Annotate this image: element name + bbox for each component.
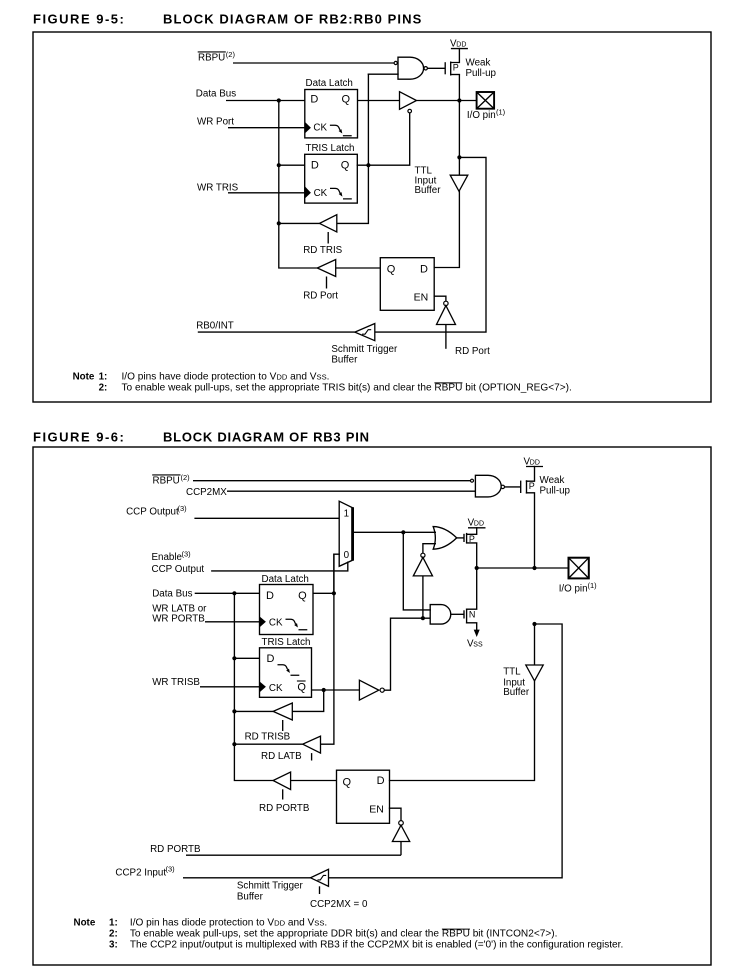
svg-text:RD LATB: RD LATB bbox=[261, 751, 302, 762]
svg-text:RD PORTB: RD PORTB bbox=[150, 844, 201, 855]
svg-text:D: D bbox=[310, 94, 318, 106]
svg-text:Buffer: Buffer bbox=[415, 185, 442, 196]
svg-text:DD: DD bbox=[530, 460, 540, 467]
svg-text:CK: CK bbox=[269, 617, 283, 628]
svg-text:Buffer: Buffer bbox=[237, 891, 264, 902]
svg-text:Data Bus: Data Bus bbox=[152, 589, 192, 600]
svg-text:Note: Note bbox=[73, 372, 95, 383]
svg-text:TRIS Latch: TRIS Latch bbox=[306, 143, 355, 154]
svg-text:Data Bus: Data Bus bbox=[196, 88, 236, 99]
svg-text:TTL: TTL bbox=[503, 667, 521, 678]
svg-text:D: D bbox=[267, 653, 275, 665]
svg-text:WR PORTB: WR PORTB bbox=[152, 613, 205, 624]
svg-text:(3): (3) bbox=[166, 865, 176, 874]
svg-text:I/O pin has diode protection t: I/O pin has diode protection to VDD and … bbox=[130, 917, 327, 928]
svg-text:I/O pin: I/O pin bbox=[559, 584, 588, 595]
svg-text:(3): (3) bbox=[182, 549, 192, 558]
svg-text:EN: EN bbox=[414, 291, 429, 303]
svg-text:(1): (1) bbox=[588, 581, 598, 590]
svg-text:RD Port: RD Port bbox=[303, 290, 338, 301]
svg-text:FIGURE 9-6:: FIGURE 9-6: bbox=[33, 429, 125, 444]
svg-text:Pull-up: Pull-up bbox=[466, 68, 497, 79]
svg-text:P: P bbox=[469, 534, 475, 544]
svg-text:D: D bbox=[266, 590, 274, 602]
svg-text:RD Port: RD Port bbox=[455, 346, 490, 357]
svg-text:WR TRIS: WR TRIS bbox=[197, 182, 239, 193]
svg-text:Q: Q bbox=[341, 160, 350, 172]
svg-text:Q: Q bbox=[343, 776, 352, 788]
svg-text:Q: Q bbox=[387, 263, 396, 275]
svg-text:1:: 1: bbox=[99, 372, 108, 383]
svg-text:RD TRIS: RD TRIS bbox=[303, 245, 342, 256]
svg-text:2:: 2: bbox=[99, 383, 108, 394]
svg-text:Buffer: Buffer bbox=[503, 687, 530, 698]
svg-text:Q: Q bbox=[298, 590, 307, 602]
svg-text:Buffer: Buffer bbox=[331, 354, 358, 365]
svg-text:I/O pin: I/O pin bbox=[467, 110, 496, 121]
svg-text:CCP Output: CCP Output bbox=[126, 507, 179, 518]
svg-text:1:: 1: bbox=[109, 917, 118, 928]
svg-text:Q: Q bbox=[342, 94, 351, 106]
svg-text:DD: DD bbox=[474, 520, 484, 527]
svg-text:3:: 3: bbox=[109, 939, 118, 950]
svg-text:DD: DD bbox=[456, 41, 466, 48]
svg-text:BLOCK DIAGRAM OF RB3 PIN: BLOCK DIAGRAM OF RB3 PIN bbox=[163, 429, 370, 444]
svg-text:FIGURE 9-5:: FIGURE 9-5: bbox=[33, 11, 125, 26]
svg-text:CK: CK bbox=[269, 683, 283, 694]
svg-text:CCP2 Input: CCP2 Input bbox=[115, 868, 166, 879]
svg-text:Schmitt Trigger: Schmitt Trigger bbox=[237, 881, 304, 892]
svg-text:2:: 2: bbox=[109, 929, 118, 940]
svg-text:EN: EN bbox=[369, 804, 384, 816]
svg-text:RBPU: RBPU bbox=[198, 53, 225, 64]
svg-text:WR TRISB: WR TRISB bbox=[152, 677, 200, 688]
svg-text:D: D bbox=[420, 263, 428, 275]
svg-text:I/O pins have diode protection: I/O pins have diode protection to VDD an… bbox=[122, 372, 330, 383]
svg-text:Q: Q bbox=[297, 682, 306, 694]
svg-text:Note: Note bbox=[74, 917, 96, 928]
svg-text:(3): (3) bbox=[178, 504, 188, 513]
svg-text:Data Latch: Data Latch bbox=[262, 574, 309, 585]
svg-text:CK: CK bbox=[313, 122, 327, 133]
svg-text:Enable: Enable bbox=[152, 552, 183, 563]
svg-text:CCP Output: CCP Output bbox=[152, 564, 205, 575]
svg-text:D: D bbox=[377, 775, 385, 787]
svg-text:CCP2MX: CCP2MX bbox=[186, 487, 227, 498]
svg-text:0: 0 bbox=[344, 550, 350, 561]
svg-text:To enable weak pull-ups, set t: To enable weak pull-ups, set the appropr… bbox=[122, 383, 572, 394]
svg-text:To enable weak pull-ups, set t: To enable weak pull-ups, set the appropr… bbox=[130, 929, 558, 940]
svg-text:BLOCK DIAGRAM OF RB2:RB0 PINS: BLOCK DIAGRAM OF RB2:RB0 PINS bbox=[163, 11, 422, 26]
svg-text:RBPU: RBPU bbox=[153, 475, 180, 486]
svg-text:P: P bbox=[529, 481, 535, 491]
svg-text:SS: SS bbox=[473, 642, 483, 649]
svg-text:Weak: Weak bbox=[466, 58, 491, 69]
svg-text:RB0/INT: RB0/INT bbox=[196, 320, 234, 331]
svg-text:TRIS Latch: TRIS Latch bbox=[262, 637, 311, 648]
svg-text:D: D bbox=[311, 160, 319, 172]
svg-text:(2): (2) bbox=[226, 50, 236, 59]
svg-text:CK: CK bbox=[314, 188, 328, 199]
svg-text:N: N bbox=[469, 610, 476, 620]
svg-text:The CCP2 input/output is multi: The CCP2 input/output is multiplexed wit… bbox=[130, 939, 623, 950]
svg-text:P: P bbox=[453, 63, 459, 73]
svg-text:WR Port: WR Port bbox=[197, 117, 234, 128]
svg-text:Data Latch: Data Latch bbox=[306, 78, 353, 89]
svg-text:1: 1 bbox=[344, 508, 349, 519]
svg-text:RD PORTB: RD PORTB bbox=[259, 803, 310, 814]
svg-text:Pull-up: Pull-up bbox=[540, 485, 571, 496]
svg-text:(2): (2) bbox=[181, 473, 191, 482]
svg-text:(1): (1) bbox=[496, 107, 506, 116]
svg-text:RD TRISB: RD TRISB bbox=[245, 732, 291, 743]
svg-text:CCP2MX = 0: CCP2MX = 0 bbox=[310, 899, 368, 910]
svg-text:Weak: Weak bbox=[540, 475, 565, 486]
